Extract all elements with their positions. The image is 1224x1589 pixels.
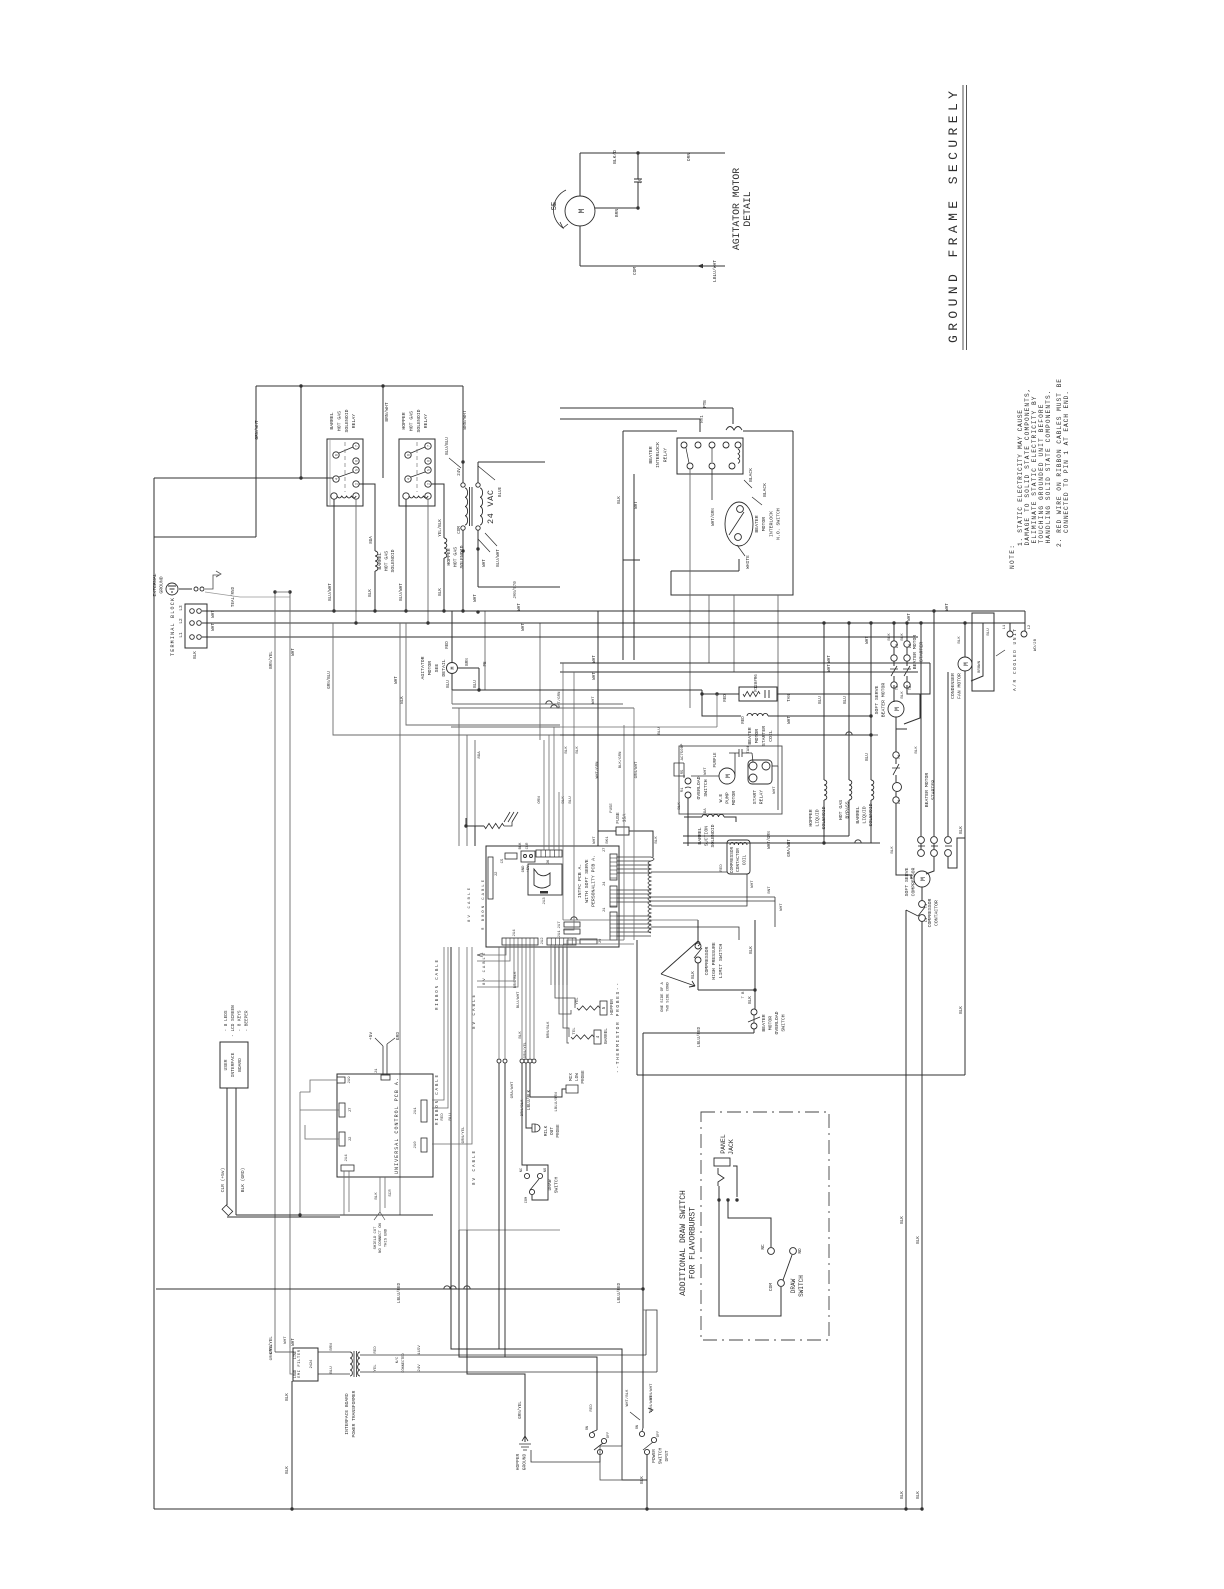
svg-text:COM: COM [769,1283,774,1291]
svg-text:T3: T3 [896,686,900,690]
connector J3 strip [610,886,617,907]
svg-text:L2: L2 [179,618,184,624]
wire [895,775,897,782]
MIX LOW PROBE symbol [566,1085,578,1093]
wire hop [846,732,852,735]
wire overload down [687,798,689,846]
svg-text:SWITCH: SWITCH [703,779,709,796]
svg-text:MOTOR: MOTOR [754,729,760,744]
svg-text:J9: J9 [599,938,603,943]
wire hop [551,705,557,708]
pointer BLUE [478,466,495,480]
wire common 2 [683,835,849,837]
junction [904,1507,907,1510]
svg-text:R120#R6: R120#R6 [755,674,759,692]
relay K1 pin 8 [333,452,339,458]
svg-text:POWER: POWER [651,1449,657,1463]
junction [404,609,407,612]
svg-text:YEL: YEL [374,1364,378,1372]
power switch terminal [639,1431,644,1436]
svg-text:W.E: W.E [718,794,724,803]
svg-text:BLK: BLK [901,1491,905,1499]
svg-text:- 8 LEDS: - 8 LEDS [224,1010,229,1031]
svg-text:T2: T2 [909,686,913,690]
svg-text:WHT: WHT [593,836,597,844]
wire long LBLU/RED [156,1288,643,1290]
relay coil arc symbol [726,427,742,431]
wire to right [452,689,560,691]
wire GRD [386,1044,388,1075]
warning flag triangle [661,941,698,987]
svg-text:HOT GAS: HOT GAS [453,547,459,567]
power switch body [600,1446,622,1480]
svg-text:WHT: WHT [780,903,784,911]
svg-text:HOPPER: HOPPER [446,548,452,565]
svg-text:BLACK: BLACK [748,468,754,482]
svg-text:J12: J12 [541,937,545,945]
svg-text:PE: PE [484,661,488,667]
wire drop [465,818,467,826]
tick [931,845,938,847]
wire down to 663 [708,595,710,663]
wire [933,844,935,849]
wire RED to contactor coil [651,871,727,873]
wire ribbon pair 1 [432,947,444,1100]
svg-text:L1: L1 [179,632,184,638]
svg-text:COM: COM [458,526,462,534]
wire to PCB [466,735,468,846]
wire WHT/GRN common [683,842,824,844]
svg-text:M: M [578,208,587,213]
svg-text:SOFT SERVE: SOFT SERVE [874,685,880,714]
draw switch NO [537,1173,542,1178]
svg-text:M: M [450,666,456,669]
junction [726,1198,729,1201]
overload terminal R5 [685,778,691,784]
svg-text:BLK: BLK [958,636,962,644]
pointer WHT [478,539,490,552]
junction [847,621,850,624]
svg-text:WHT: WHT [395,676,399,684]
terminal L2 [1021,631,1027,637]
terminal [190,635,195,640]
svg-text:BRN/WHT: BRN/WHT [384,402,390,422]
svg-text:THIS END: THIS END [384,1228,388,1247]
wire feeder B [563,672,574,930]
transformer T1 primary winding [465,488,468,525]
arrow on bottom wire [697,264,703,268]
wire LBLU [643,1032,754,1034]
coil L2 HOPPER HOT GAS SOLENOID [444,538,447,558]
stud [200,587,204,591]
contact L1 [893,797,899,803]
wire 735 to barrel liquid [560,734,871,736]
title underline 1 [962,85,964,350]
svg-text:EMI FILTER: EMI FILTER [298,1349,302,1378]
wire K1 coil to bus [333,499,335,611]
pointer BLU/BLU [449,458,461,468]
svg-text:5: 5 [428,469,432,471]
wire to draw switch NC [522,1063,527,1171]
wire to hopper thermistor [555,947,575,1008]
svg-text:ON: ON [586,1426,590,1430]
svg-text:WHT: WHT [946,603,950,611]
switch terminal [735,534,742,541]
power switch terminal [589,1432,594,1437]
relay K3 coil [738,449,740,463]
svg-text:SWITCH: SWITCH [781,1014,787,1031]
power switch terminal [644,1449,649,1454]
svg-text:LIMIT SWITCH: LIMIT SWITCH [718,944,724,979]
thermistor HOPPER [577,1006,600,1010]
pointer BLACK [744,480,752,488]
svg-text:8V CABLE: 8V CABLE [473,995,477,1029]
wire BRN/YEL long [274,592,276,1352]
transformer primary terminal [461,526,465,530]
wire bottom [698,989,755,991]
start relay terminal [749,774,757,782]
wire from J12 [566,945,568,985]
transformer secondary terminal [476,483,480,487]
wire from J14 to connector row [533,945,535,1058]
wire from J14 to 8V cable [477,945,506,955]
svg-text:FOR FLAVORBURST: FOR FLAVORBURST [689,1207,698,1279]
left boundary wire [153,478,155,1509]
svg-text:GRA/WHT: GRA/WHT [510,1081,515,1098]
svg-text:USER: USER [223,1059,229,1070]
connector J11 rect [564,929,580,934]
svg-text:BLK: BLK [369,589,373,597]
svg-text:OFF: OFF [657,1431,661,1437]
junction [892,621,895,624]
relay K2 dashed centerline [416,442,418,492]
terminal [190,621,195,626]
relay K1 pin 7 [353,443,359,449]
svg-text:HOT GAS: HOT GAS [336,411,342,431]
svg-text:NOTE:: NOTE: [1009,545,1016,569]
svg-text:8V CABLE: 8V CABLE [468,887,472,922]
wire PCB right [617,872,651,874]
svg-text:WHT/GRN: WHT/GRN [557,691,562,708]
compressor terminal T3 [931,850,938,857]
svg-text:BEATER: BEATER [754,515,760,532]
wire mid [451,726,560,728]
wire ribbon [543,792,545,850]
wire WHT short [484,611,486,690]
wire PCB right [617,919,651,921]
wire RED tail [592,1430,597,1432]
svg-text:BRN/WHT: BRN/WHT [649,1395,654,1412]
wire PCB right [617,889,651,891]
svg-text:BEATER MOTOR: BEATER MOTOR [924,773,930,808]
svg-text:M: M [920,877,927,881]
svg-text:J2: J2 [495,871,499,876]
relay K1 coil terminal [353,493,359,499]
wire solenoid down [848,800,850,836]
wire BRN inside box [971,623,983,681]
svg-text:8V CABLE: 8V CABLE [483,952,487,985]
wire to primary [462,462,464,483]
svg-text:BLK: BLK [749,996,753,1004]
transformer T1 core [469,487,471,526]
connector J1 top [381,1075,390,1080]
wire WHT down [633,474,635,660]
contact circle [893,783,902,792]
relay K2 coil terminal [403,493,409,499]
svg-text:BLK: BLK [576,746,580,754]
wire solenoid down [823,800,825,843]
svg-text:HOPPER: HOPPER [515,1453,521,1470]
wire from fuse [629,831,653,846]
overload switch terminal [751,1009,757,1015]
wire switch to hopper gnd [531,1450,600,1462]
fuse F1 [616,827,629,835]
svg-text:MOTOR: MOTOR [768,1016,774,1031]
svg-text:RED: RED [724,694,728,702]
svg-text:COM: COM [525,1197,529,1203]
wire hot gas bypass feeder [848,623,850,780]
wire PTB [560,407,733,409]
relay K3 pin [709,463,715,469]
wire solenoid to bus [443,558,445,611]
junction [299,476,302,479]
connector J4 strip [610,854,617,880]
svg-text:BLK: BLK [915,746,919,754]
wire ribbon [558,792,560,850]
wire PCB right [617,860,651,862]
starter terminal T [891,682,897,688]
wire to right [651,896,775,898]
svg-text:WHT: WHT [284,1336,288,1344]
svg-text:TAN: TAN [788,694,792,702]
connector pin [503,1059,507,1063]
svg-text:DAMAGE TO SOLID STATE COMPONEN: DAMAGE TO SOLID STATE COMPONENTS, [1024,389,1031,546]
relay K1 pin 4 [333,476,339,482]
svg-text:BLACK: BLACK [762,483,768,497]
svg-text:BLK: BLK [655,836,659,844]
svg-text:24V: 24V [458,468,462,476]
svg-text:BLK/GRN: BLK/GRN [618,751,623,768]
svg-text:WHT: WHT [522,623,526,631]
wire join [451,690,453,704]
flavorburst NO terminal [790,1248,797,1255]
svg-text:WHT: WHT [908,613,912,621]
wire feeder C [623,725,625,940]
pointer BLU/WHT [485,533,497,546]
start relay terminal [749,762,757,770]
connector J5 [505,853,517,859]
svg-text:START: START [752,790,758,805]
wire [697,963,699,990]
svg-text:+5v: +5v [368,1032,374,1041]
svg-text:BOARD: BOARD [237,1058,243,1072]
wire resistor to hatch [504,822,512,826]
svg-text:PROBE: PROBE [581,1070,586,1084]
bus L2 [202,622,1025,624]
wire to control pcb [236,1214,433,1216]
arrow [477,953,483,957]
svg-text:WHT: WHT [773,786,777,794]
svg-text:RY1: RY1 [701,415,705,423]
coil HOPPER LIQUID SOLENOID [824,780,827,800]
svg-text:BARREL: BARREL [329,412,335,429]
wire RY1 upper [560,418,700,420]
wire to fuse [598,830,616,832]
wire [718,1186,720,1200]
wire up [462,440,464,462]
wire tie [275,591,290,593]
wire [906,910,918,916]
relay K3 pin [723,442,729,448]
tick [945,845,952,847]
wire WHT mid feeder [399,623,401,1215]
wire from R120 [777,693,871,695]
wire K2 coil to bus [405,499,407,611]
wire WHT/BLK run to power switch [451,947,647,1480]
wire overload to motor [691,775,719,777]
wire cap to relay [752,753,753,762]
wire boundary to K1 pin4 [154,477,333,479]
wire to mix low probe [530,1063,566,1097]
svg-text:LBLU/RED: LBLU/RED [617,1282,622,1303]
svg-text:ELIMINATE STATIC ELECTRICITY B: ELIMINATE STATIC ELECTRICITY BY [1031,396,1038,543]
connector pin [497,1059,501,1063]
wire GRN/BLU [333,623,878,735]
junction [753,988,756,991]
svg-text:J13: J13 [543,897,547,905]
junction [735,1198,738,1201]
svg-text:BLK: BLK [194,651,198,659]
svg-text:WHT/GRN: WHT/GRN [595,761,600,778]
wire corner to motor loop [920,663,930,694]
wire to starter coil [702,694,741,716]
junction [645,1507,648,1510]
svg-text:4: 4 [336,478,340,480]
svg-text:BLK: BLK [519,842,523,850]
wire BLK to bottom [646,1455,648,1509]
wire from J14 [343,1171,345,1215]
svg-text:WHT: WHT [788,716,792,724]
svg-text:J7: J7 [603,847,607,852]
svg-text:BLU: BLU [844,696,848,704]
relay K2 pin 2 [425,481,431,487]
svg-text:WHT/GRN: WHT/GRN [711,508,716,526]
wire up 24V [646,1310,657,1372]
svg-text:--THERMISTOR PROBES--: --THERMISTOR PROBES-- [615,983,621,1073]
power switch terminal [597,1449,602,1454]
stub up [716,694,718,727]
wire [906,647,908,655]
junction [298,1213,301,1216]
junction [426,621,429,624]
thermistor BARREL [571,1035,594,1039]
wire from J14 [348,1171,350,1212]
svg-text:HIGH PRESSURE: HIGH PRESSURE [711,942,717,980]
EMI FILTER box [293,1348,318,1381]
wire RED 115V [360,1354,646,1356]
wire from J14 to connector row [521,945,523,1058]
wire BLU/WHT right [478,586,560,588]
junction [822,621,825,624]
wire BLK elbow [406,623,560,725]
connector pin [528,1059,532,1063]
beater motor starter coil [747,713,768,716]
stub [701,690,703,694]
connector J11 right [421,1100,427,1122]
svg-text:RED: RED [742,716,746,724]
wire BLK [235,1088,237,1215]
svg-text:BLK/O: BLK/O [612,150,618,164]
svg-text:RED: RED [446,641,450,649]
svg-text:BRN/BLK: BRN/BLK [513,971,518,988]
svg-text:8V CABLE: 8V CABLE [473,1151,477,1185]
svg-text:HOT GAS: HOT GAS [384,551,390,571]
svg-text:2424: 2424 [310,1360,314,1369]
wire from J12 [562,945,564,985]
wire down to 672 [733,595,735,672]
wire PCB right [617,868,651,870]
limit switch terminal [695,943,701,949]
wire motor bottom [579,226,581,266]
svg-text:6: 6 [428,460,432,462]
svg-text:SEE: SEE [434,664,440,673]
wire teal [205,592,290,597]
svg-text:T1: T1 [898,755,902,759]
relay K1 coil [337,496,356,498]
coil BARREL LIQUID SOLENOID [871,780,874,800]
junction [869,714,872,717]
svg-text:PTB: PTB [704,400,708,408]
svg-text:M: M [725,774,732,778]
compressor contactor coil box [727,840,750,874]
svg-text:BLK: BLK [439,588,443,596]
wire hop [464,1286,470,1289]
junction [290,1507,293,1510]
svg-text:- BEEPER: - BEEPER [244,1010,249,1031]
svg-text:BLU: BLU [658,727,662,735]
wire BLK to fan [964,623,966,657]
wire BLK right long [964,671,966,1075]
relay K2 pin 8 [405,452,411,458]
svg-text:BLUE: BLUE [499,486,503,497]
svg-text:PUMP: PUMP [725,792,731,804]
svg-text:ONE SIDE OF A: ONE SIDE OF A [661,981,665,1011]
svg-text:GRN/WHT: GRN/WHT [634,761,639,778]
overload terminal R1 [685,792,691,798]
wire drop [699,419,701,432]
wire K1 coil to L2 bus [355,499,357,623]
wire [921,887,923,901]
svg-text:HOT GAS: HOT GAS [838,800,844,820]
svg-text:MILK: MILK [544,1125,549,1136]
wire K1 pin2 to solenoid [359,484,375,551]
svg-text:SOFT SERVE: SOFT SERVE [904,867,910,896]
wire down to compressor [896,803,911,879]
relay K1 blade [339,447,353,453]
wire WHT long [289,592,291,1348]
svg-text:GND: GND [522,865,526,873]
W.E pump motor M [719,768,735,784]
wire PCB right [617,864,651,866]
svg-text:BRN: BRN [330,1343,334,1351]
svg-text:BLK: BLK [692,971,696,979]
draw switch COM [529,1189,534,1194]
relay K2 pin 4 [405,476,411,482]
svg-text:SOLENOID: SOLENOID [710,824,716,847]
title underline 2 [966,85,968,350]
probe body 5 [600,1001,607,1015]
wire [893,685,895,702]
